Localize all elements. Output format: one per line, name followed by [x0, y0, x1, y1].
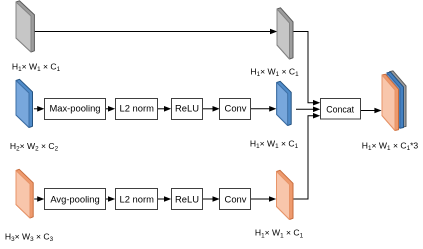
- svg-text:Avg-pooling: Avg-pooling: [50, 193, 99, 204]
- svg-text:L2 norm: L2 norm: [119, 193, 154, 204]
- svg-text:Max-pooling: Max-pooling: [49, 102, 100, 113]
- svg-text:Conv: Conv: [225, 193, 247, 204]
- svg-text:Conv: Conv: [225, 102, 247, 113]
- svg-text:L2 norm: L2 norm: [119, 102, 154, 113]
- svg-text:ReLU: ReLU: [175, 102, 199, 113]
- svg-text:Concat: Concat: [326, 105, 354, 115]
- svg-text:ReLU: ReLU: [175, 193, 199, 204]
